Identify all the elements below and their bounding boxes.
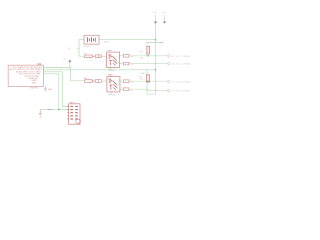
wire from G1 left pin down to opto1 LED row — [79, 40, 85, 57]
junction rail/bus — [155, 69, 157, 71]
wire U1 to connector pin 2 — [44, 74, 69, 110]
wire from G1 right pin to supply bus — [99, 39, 156, 41]
connector SV1 (bottom) — [67, 102, 80, 124]
diode D2 — [123, 55, 129, 58]
supply symbol VCC top right 2 — [164, 15, 166, 22]
svg-text:IC1: IC1 — [38, 62, 43, 66]
supply flag bottom-left — [39, 110, 42, 118]
OK1 collector row: pin, component D2, wire to flag — [120, 55, 123, 57]
pin flag P2 circle — [168, 62, 170, 64]
arrow flag end — [161, 42, 164, 44]
svg-text:ZC_OUT_1 230VAC: ZC_OUT_1 230VAC — [172, 55, 191, 58]
svg-text:0V: 0V — [63, 59, 66, 61]
SV1 pin pads — [70, 106, 77, 119]
wire U1 to connector pin 1 — [44, 72, 69, 107]
OK1 left pin wire with series resistor R3 — [100, 55, 106, 57]
pin flag P1 circle — [168, 55, 170, 57]
junction R2/row — [147, 80, 149, 82]
svg-text:G1: G1 — [77, 48, 81, 50]
svg-text:230V: 230V — [104, 42, 109, 44]
resistor R2 (vertical, pull-up bottom) — [147, 75, 150, 82]
svg-text:GND: GND — [48, 89, 53, 91]
wire ground rail from U1 to right bus — [44, 69, 156, 71]
svg-text:10k: 10k — [140, 58, 143, 60]
supply symbol VCC top right 1 — [155, 15, 157, 22]
svg-text:N: N — [69, 48, 71, 50]
svg-text:OK2: OK2 — [108, 75, 113, 77]
svg-text:GND: GND — [32, 82, 37, 84]
diode D5 — [123, 80, 129, 83]
component G1 (top box, mains module) — [84, 35, 99, 44]
wire R1 bottom to collector row — [146, 53, 148, 56]
diode D1 — [92, 55, 101, 58]
SV1 circle detail — [76, 119, 80, 123]
wire R2 top to rail — [146, 70, 148, 76]
opto-coupler OK2 — [107, 75, 120, 97]
svg-text:SV1: SV1 — [70, 102, 75, 104]
svg-text:B250C: B250C — [84, 46, 91, 48]
ground GND below U1 — [44, 87, 47, 92]
OK2 collector row with diode D5 — [120, 80, 123, 82]
svg-text:+5: +5 — [153, 12, 156, 14]
diode D3 — [123, 62, 129, 65]
svg-text:1k: 1k — [131, 56, 133, 58]
svg-text:SFH620: SFH620 — [108, 70, 116, 72]
svg-text:R1: R1 — [140, 51, 143, 53]
G1 internal battery bars — [87, 37, 95, 42]
OK2 bottom pin — [110, 92, 112, 94]
wire R1 top to arrow flag — [147, 43, 163, 46]
svg-text:ZC_OUT_3 230VAC: ZC_OUT_3 230VAC — [172, 81, 191, 84]
wire supply1 down to bus — [155, 23, 157, 39]
svg-text:1k: 1k — [131, 64, 133, 66]
svg-text:GND: GND — [48, 109, 53, 111]
svg-text:ZC_OUT_2 230VAC: ZC_OUT_2 230VAC — [172, 63, 191, 66]
svg-text:OK1: OK1 — [108, 50, 113, 52]
resistor R3 (horizontal) — [85, 55, 92, 58]
pin flag P3 circle — [168, 80, 170, 82]
supply arrow small left of R3 — [63, 59, 71, 68]
OK1 emitter row: pin, component D3, wire to flag — [120, 63, 123, 65]
SV1 pin stubs left — [67, 106, 69, 119]
IC U1 (opto-driver IC, big box) — [8, 65, 43, 86]
OK2 emitter row with diode D6 — [120, 88, 123, 90]
diode D6 — [123, 88, 129, 91]
wire stub to left supply flag — [40, 109, 59, 111]
svg-text:ZC_OUT_4 230VAC: ZC_OUT_4 230VAC — [172, 90, 191, 93]
svg-text:MID400: MID400 — [30, 88, 39, 90]
svg-text:+5: +5 — [162, 12, 165, 14]
wire from U1 pin to vertical drop (net to opto2 LED) — [44, 68, 85, 81]
U1 pin name text rows — [10, 66, 43, 84]
OK2 left feed: resistor R4 and diode D4 — [85, 80, 92, 83]
junction at connector feed — [58, 109, 60, 111]
svg-text:1k: 1k — [131, 82, 133, 84]
wire R2 bottom junction — [146, 83, 148, 94]
pin flag P4 circle — [168, 89, 170, 91]
junction bus / G1 wire — [155, 39, 157, 41]
resistor R1 (vertical, pull-up top) — [147, 46, 150, 54]
OK1 bottom pin to rail — [110, 67, 112, 69]
opto-coupler OK1 — [107, 50, 120, 72]
svg-text:GND: GND — [141, 73, 146, 75]
junction R1/collector row — [147, 55, 149, 57]
vertical supply bus — [148, 40, 156, 94]
svg-text:10k: 10k — [140, 79, 143, 81]
svg-text:1k: 1k — [131, 90, 133, 92]
svg-text:SFH620: SFH620 — [108, 95, 116, 97]
